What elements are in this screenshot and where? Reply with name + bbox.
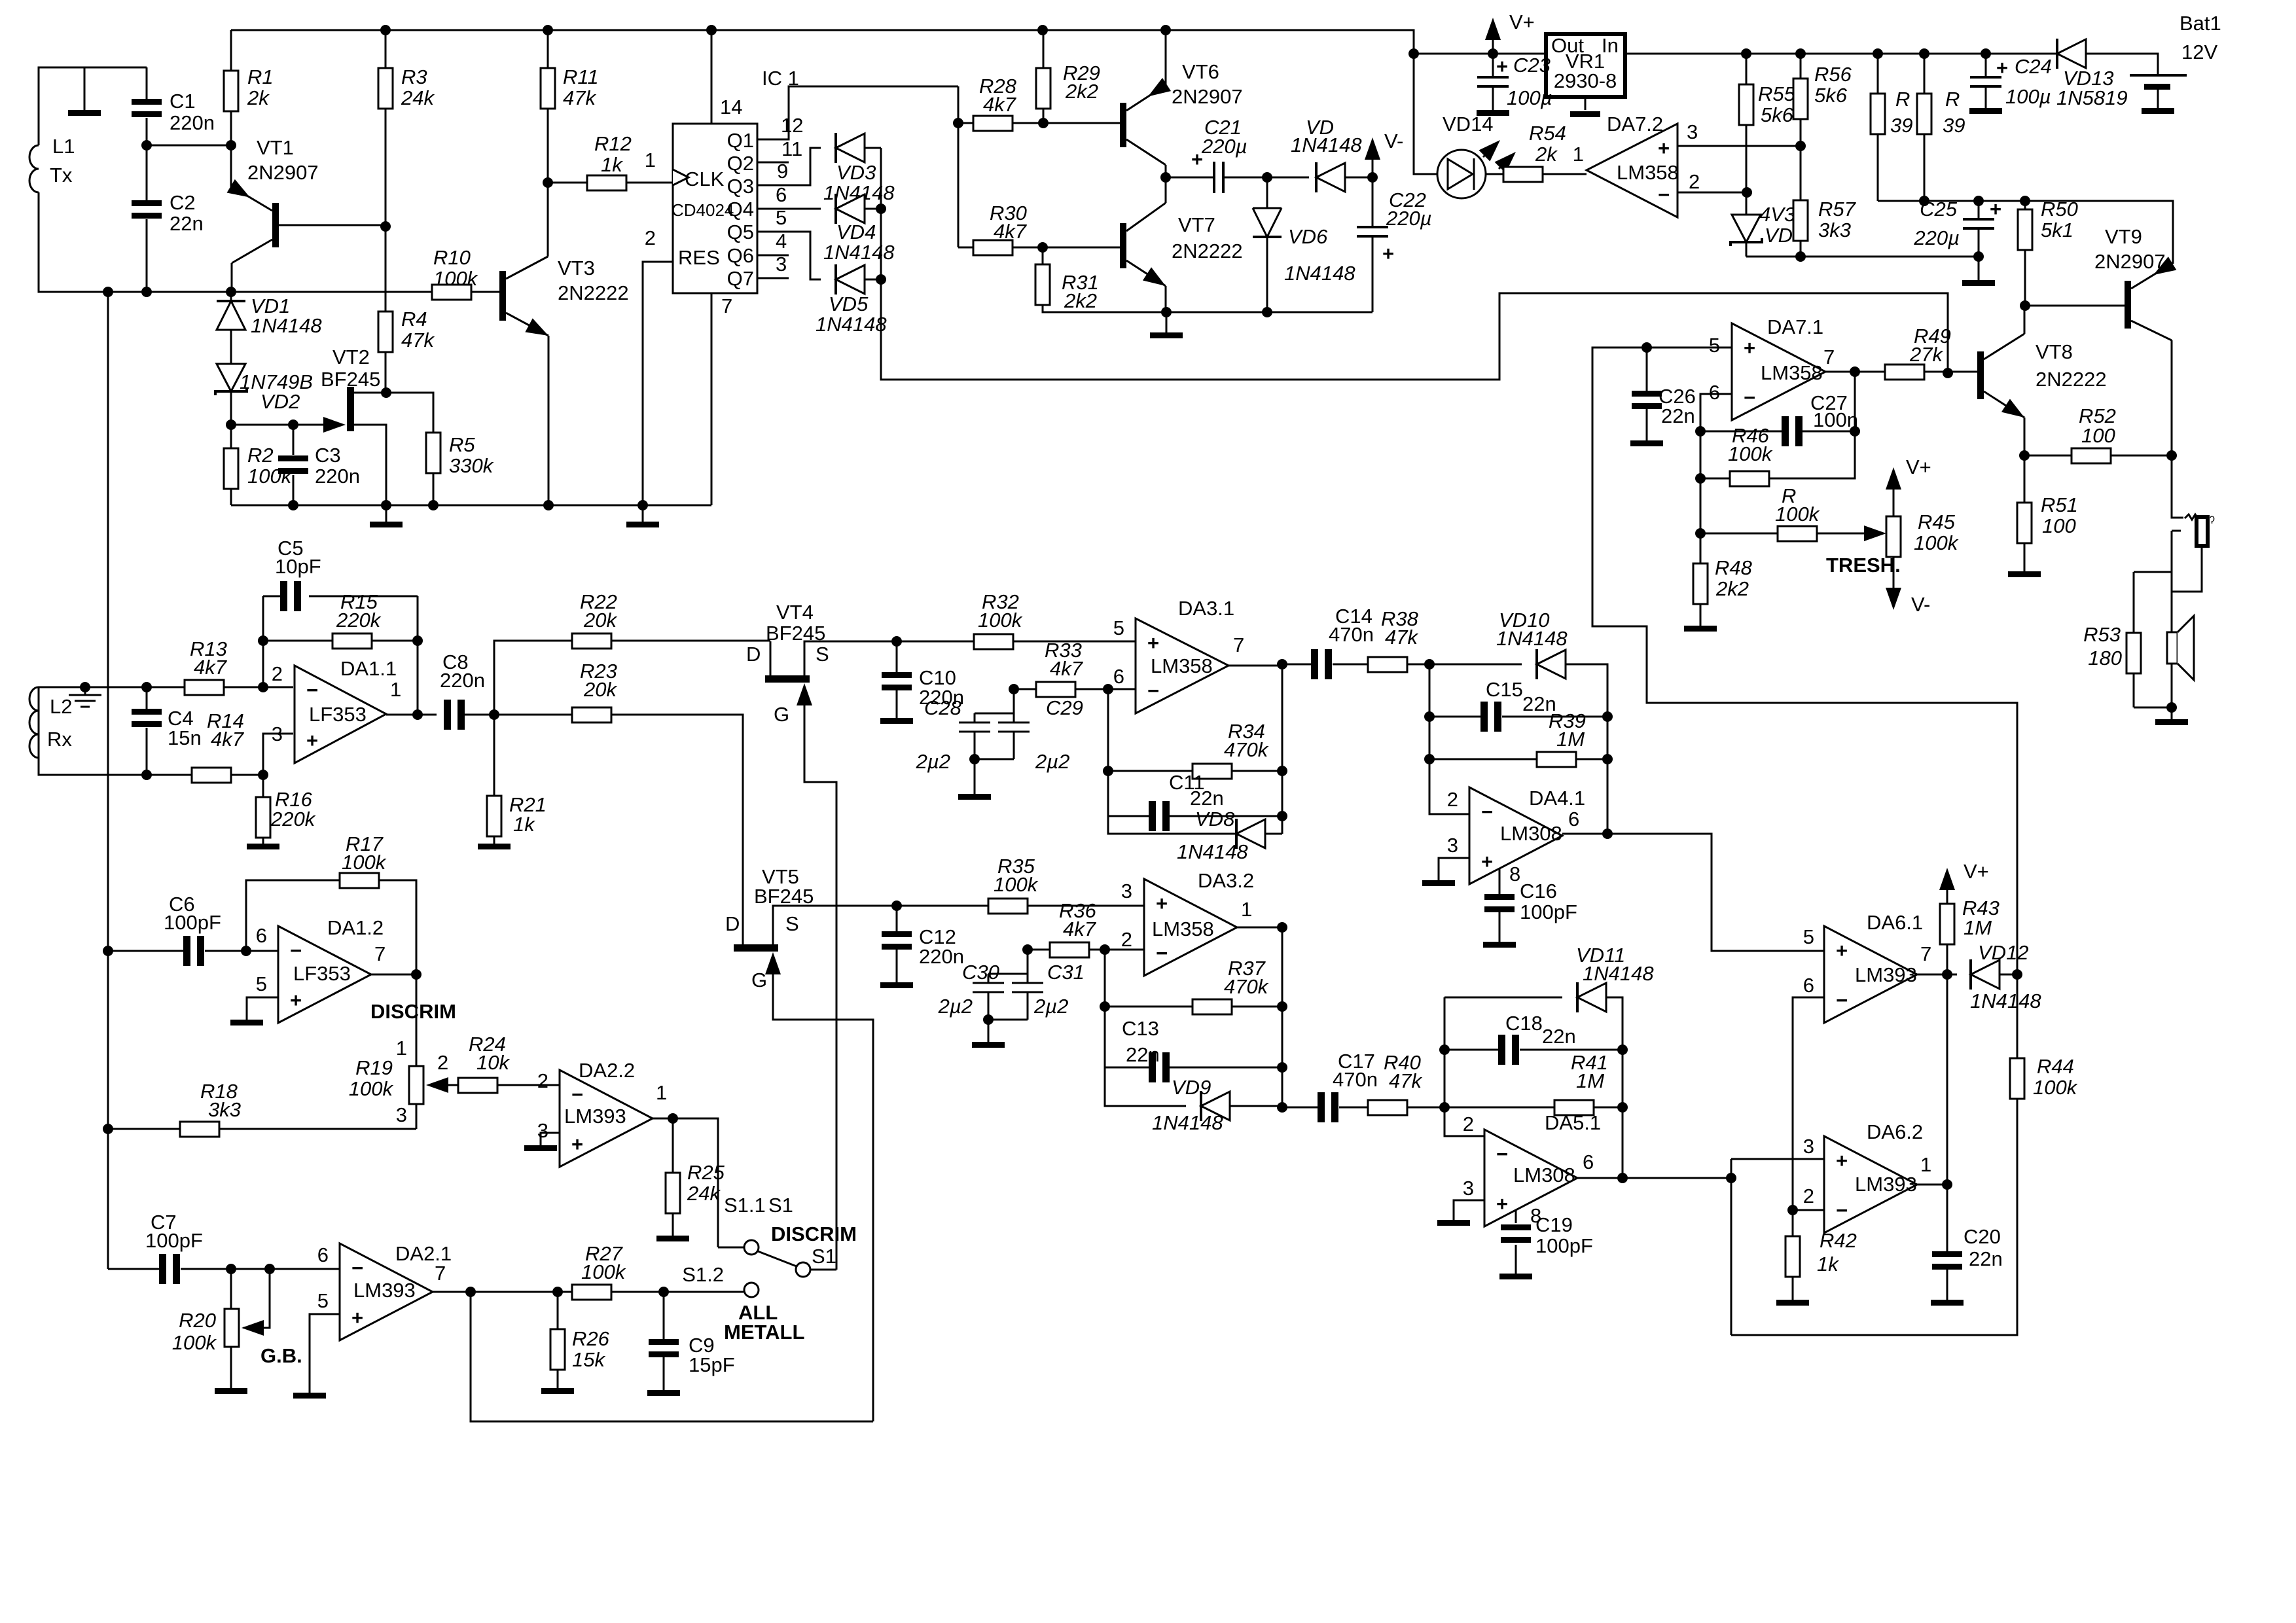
svg-text:G: G (774, 703, 789, 726)
wire DA6.2 pin3 (1731, 1158, 1824, 1160)
wire DA7.1 pin5 long return (1592, 348, 2017, 974)
wire source rail (231, 505, 711, 507)
svg-text:6: 6 (1568, 808, 1579, 830)
capacitors C28 C29 2u2 (975, 689, 1014, 722)
ground at C23 (1477, 110, 1509, 116)
svg-text:3: 3 (396, 1103, 407, 1126)
svg-text:VT3: VT3 (558, 257, 595, 279)
wire pin2 column with feedback taps (262, 596, 264, 687)
resistor R 39 second (1924, 54, 1926, 201)
svg-text:22n: 22n (1661, 404, 1695, 427)
svg-text:DA6.1: DA6.1 (1867, 911, 1923, 934)
svg-text:4k7: 4k7 (983, 93, 1017, 116)
svg-text:S1: S1 (812, 1245, 836, 1268)
svg-text:−: − (1658, 183, 1670, 206)
svg-text:METALL: METALL (724, 1321, 804, 1344)
transistor VT4 BF245 JFET (765, 675, 810, 683)
ground at VT2 source (386, 505, 387, 522)
wire VT7 emitter ground stub (1166, 312, 1168, 332)
svg-text:V+: V+ (1906, 455, 1931, 478)
svg-text:Q7: Q7 (727, 267, 754, 290)
svg-text:6: 6 (317, 1243, 329, 1266)
ground at R26 (541, 1388, 574, 1394)
potentiometer R45 100k (1864, 526, 1886, 541)
svg-text:C30: C30 (962, 961, 999, 984)
transistor VT8 2N2222 (1977, 351, 1984, 399)
resistor R53 (2134, 572, 2172, 707)
op-amp DA2.1 LM393 (340, 1243, 433, 1340)
potentiometer R19 100k (409, 1066, 423, 1104)
svg-text:8: 8 (1509, 863, 1520, 885)
wire DA7.1 output row (1825, 371, 1885, 373)
svg-text:100pF: 100pF (1520, 901, 1577, 923)
ground at C25 (1978, 257, 1980, 280)
wire Q6 pin4 (757, 255, 789, 257)
ground at R51 (2008, 571, 2041, 577)
svg-text:Q5: Q5 (727, 221, 754, 243)
resistor R41 1M (1444, 1107, 1623, 1109)
wire output to R19 (416, 974, 418, 1066)
switch S1.2 (664, 1291, 744, 1293)
svg-text:3: 3 (537, 1119, 548, 1142)
V+ arrow top (1492, 31, 1494, 54)
wire C6 to pin6 and R17 (246, 880, 340, 951)
wire DA2.1 output (433, 1291, 572, 1293)
op-amp DA1.1 LF353 (295, 666, 386, 763)
svg-text:DA1.2: DA1.2 (327, 916, 384, 939)
svg-text:S1.1: S1.1 (724, 1194, 766, 1217)
resistor R21 (493, 715, 495, 796)
svg-text:Q4: Q4 (727, 198, 754, 221)
capacitor C3 (293, 425, 295, 505)
resistor R52 (2024, 455, 2172, 457)
wire VT9 collector to R52 (2171, 340, 2173, 455)
svg-text:DA5.1: DA5.1 (1545, 1111, 1601, 1134)
svg-text:1N4148: 1N4148 (1291, 134, 1362, 156)
svg-text:22n: 22n (1126, 1043, 1160, 1066)
svg-text:2µ2: 2µ2 (938, 995, 973, 1018)
ground at C24 (1969, 108, 2002, 114)
svg-text:C1: C1 (170, 90, 196, 113)
resistor R49 (1885, 365, 1924, 380)
diode VD4 1N4148 (836, 194, 865, 224)
svg-text:C20: C20 (1964, 1225, 2001, 1248)
resistor R2 (230, 425, 232, 505)
svg-text:DA1.1: DA1.1 (340, 657, 397, 680)
svg-text:1: 1 (1573, 143, 1584, 166)
svg-text:DA3.2: DA3.2 (1198, 869, 1254, 892)
svg-text:LM358: LM358 (1761, 361, 1823, 384)
wire L1 tank top (39, 67, 147, 145)
wire VD6 C22 bottom rail (1166, 312, 1372, 313)
wire R33 to pin6 (1108, 688, 1136, 690)
svg-text:R25: R25 (687, 1161, 725, 1184)
wire feedback right column (417, 596, 419, 715)
svg-text:C24: C24 (2015, 55, 2052, 78)
svg-text:+: + (1836, 1149, 1848, 1172)
svg-text:VT9: VT9 (2105, 225, 2142, 248)
svg-text:−: − (1496, 1143, 1508, 1166)
wire DA2.2 pin3 ground (541, 1133, 560, 1145)
svg-text:7: 7 (435, 1262, 446, 1285)
op-amp DA7.2 LM358 (1587, 124, 1677, 217)
svg-text:47k: 47k (1389, 1069, 1422, 1092)
resistor R3 (385, 30, 387, 226)
wire DA6.1 output (1917, 974, 1957, 976)
wire DA5.1 output (1577, 1159, 1731, 1335)
capacitor C2 (146, 145, 148, 292)
svg-text:100pF: 100pF (1535, 1234, 1593, 1257)
wire zener bottom rail (1746, 256, 1979, 258)
svg-text:+: + (1156, 892, 1168, 915)
capacitor C12 220n (896, 906, 898, 982)
svg-text:2N2222: 2N2222 (558, 281, 629, 304)
svg-text:BF245: BF245 (754, 885, 814, 908)
svg-text:15k: 15k (572, 1348, 605, 1371)
wire gate node row (231, 424, 338, 426)
switch S1.1 common (718, 1247, 744, 1249)
capacitor C1 (146, 67, 148, 145)
svg-text:VT7: VT7 (1178, 213, 1215, 236)
svg-text:4k7: 4k7 (194, 656, 228, 679)
svg-text:1k: 1k (513, 813, 535, 836)
capacitor C9 15pF (663, 1292, 665, 1390)
svg-text:BF245: BF245 (321, 368, 380, 391)
svg-text:20k: 20k (583, 609, 617, 632)
svg-text:5k6: 5k6 (1761, 103, 1794, 126)
wire DA7.2 pin3 (1677, 145, 1801, 147)
resistor R16 (262, 775, 264, 797)
wire mid supply rail y307 (1878, 201, 2173, 264)
svg-text:DA3.1: DA3.1 (1178, 597, 1234, 620)
svg-text:−: − (290, 939, 302, 962)
ground at C12 (880, 982, 913, 988)
svg-text:VT8: VT8 (2036, 340, 2073, 363)
svg-text:1N4148: 1N4148 (1177, 840, 1248, 863)
svg-text:3: 3 (1803, 1135, 1814, 1158)
resistor R30 (958, 247, 1043, 249)
svg-text:C3: C3 (315, 444, 341, 467)
resistor R42 (1792, 1210, 1794, 1236)
svg-text:3: 3 (1121, 880, 1132, 902)
transistor VT7 2N2222 (1120, 223, 1126, 268)
svg-text:L1: L1 (52, 135, 75, 158)
svg-text:C29: C29 (1046, 696, 1083, 719)
svg-text:100pF: 100pF (164, 911, 221, 934)
svg-text:2N2907: 2N2907 (1172, 85, 1243, 108)
ground at IC1 reset (642, 505, 644, 522)
svg-text:Q6: Q6 (727, 244, 754, 267)
svg-text:4V3: 4V3 (1759, 203, 1795, 226)
resistor R26 (557, 1292, 559, 1388)
resistor R33 (1014, 688, 1108, 690)
svg-text:2k: 2k (1535, 143, 1558, 166)
capacitor C18 22n (1444, 1049, 1498, 1051)
wire DA4.1 output to DA6.1 (1562, 834, 1824, 951)
svg-text:R42: R42 (1820, 1229, 1857, 1252)
svg-text:220n: 220n (919, 945, 964, 968)
svg-text:2: 2 (1463, 1113, 1474, 1135)
svg-text:7: 7 (1920, 942, 1931, 965)
resistor R31 (1042, 247, 1044, 264)
svg-text:2k2: 2k2 (1064, 289, 1097, 312)
svg-text:R19: R19 (355, 1056, 393, 1079)
inductor L1 Tx coil (29, 145, 39, 192)
capacitor C6 100pF (108, 950, 183, 952)
svg-text:2: 2 (1447, 788, 1458, 811)
capacitor C15 22n (1429, 716, 1480, 718)
svg-text:1: 1 (1241, 898, 1252, 921)
wire DA7.1 pin6 node column (1700, 394, 1732, 563)
ground at C9 (647, 1390, 680, 1396)
wire Q5 pin5 (757, 232, 821, 279)
wire DA6.2 pin2 (1793, 1209, 1824, 1211)
wire VT4 gate route (804, 705, 836, 1270)
resistor R22 (572, 633, 611, 649)
resistor R50 (2024, 201, 2026, 306)
resistor R56 (1800, 54, 1802, 201)
svg-text:C19: C19 (1535, 1213, 1573, 1236)
svg-text:100: 100 (2042, 514, 2076, 537)
svg-text:Q3: Q3 (727, 175, 754, 198)
ground at VR1 (1585, 97, 1587, 110)
svg-text:220n: 220n (170, 111, 215, 134)
phone jack (2172, 455, 2183, 518)
svg-text:100pF: 100pF (145, 1229, 203, 1252)
svg-text:LM393: LM393 (1855, 963, 1917, 986)
ground at C19 (1499, 1274, 1532, 1279)
svg-text:LM358: LM358 (1151, 654, 1213, 677)
svg-text:11: 11 (781, 137, 802, 160)
transistor VT9 2N2907 (2125, 281, 2131, 329)
diode VD12 1N4148 (1971, 959, 2000, 990)
svg-text:100k: 100k (2033, 1076, 2078, 1099)
wire R22 step (494, 641, 572, 715)
svg-text:22n: 22n (1969, 1247, 2003, 1270)
svg-text:+: + (1658, 137, 1670, 160)
diode VD9 1N4148 (1105, 1067, 1186, 1106)
resistor R13 (185, 680, 224, 695)
svg-text:V+: V+ (1509, 10, 1535, 33)
ground at R48 (1684, 626, 1717, 632)
svg-text:+: + (1496, 55, 1508, 78)
ground at C30 C31 (972, 1042, 1005, 1048)
capacitor C24 100u (1985, 54, 1987, 108)
svg-text:2: 2 (1121, 928, 1132, 951)
svg-text:2N2222: 2N2222 (2036, 368, 2107, 391)
svg-text:R4: R4 (401, 308, 427, 330)
svg-text:R48: R48 (1715, 556, 1753, 579)
svg-text:LM358: LM358 (1617, 161, 1679, 184)
diode VD10 1N4148 (1429, 664, 1522, 666)
svg-text:6: 6 (1113, 665, 1124, 688)
resistor R29 (1043, 30, 1045, 123)
svg-text:S: S (816, 643, 829, 666)
wire DA4.1 pin3 ground (1439, 858, 1469, 880)
resistor R35 (897, 905, 1144, 907)
svg-text:3: 3 (1463, 1177, 1474, 1200)
svg-text:10pF: 10pF (275, 555, 321, 578)
svg-text:24k: 24k (401, 86, 435, 109)
capacitor C21 220u (1214, 162, 1223, 193)
svg-text:LF353: LF353 (309, 703, 367, 726)
svg-text:7: 7 (1233, 633, 1244, 656)
svg-text:6: 6 (1803, 974, 1814, 997)
ground at C16 (1483, 942, 1516, 948)
capacitor C22 220u (1372, 177, 1374, 312)
svg-text:LF353: LF353 (293, 962, 351, 985)
svg-text:VT2: VT2 (332, 346, 370, 368)
svg-text:R: R (1945, 88, 1960, 111)
svg-text:−: − (1744, 386, 1755, 409)
svg-text:1N4148: 1N4148 (1970, 990, 2041, 1012)
transistor VT6 2N2907 (1120, 103, 1126, 147)
svg-text:5k1: 5k1 (2041, 219, 2073, 241)
diode VD3 1N4148 (836, 133, 865, 163)
resistor R threshold 100k (1700, 533, 1877, 535)
wire DA3.2 output column (1237, 927, 1282, 1107)
svg-text:5: 5 (1113, 616, 1124, 639)
svg-text:7: 7 (721, 294, 732, 317)
svg-text:100k: 100k (1775, 503, 1820, 526)
svg-text:V-: V- (1384, 130, 1403, 152)
svg-text:R54: R54 (1529, 122, 1566, 145)
svg-text:+: + (306, 729, 318, 752)
diode VD6 1N4148 (1266, 177, 1268, 208)
svg-text:5: 5 (1709, 334, 1720, 357)
svg-text:1M: 1M (1964, 916, 1992, 939)
ground at R16 (247, 844, 279, 849)
resistor R4 (385, 226, 387, 393)
svg-text:+: + (1382, 242, 1394, 265)
ground at R21 (478, 844, 511, 849)
svg-text:100µ: 100µ (2005, 85, 2051, 108)
svg-text:6: 6 (776, 183, 787, 206)
svg-text:20k: 20k (583, 678, 617, 701)
svg-text:R56: R56 (1814, 63, 1852, 86)
transistor VT3 2N2222 (499, 271, 506, 321)
svg-text:2930-8: 2930-8 (1554, 69, 1617, 92)
svg-text:100k: 100k (342, 851, 387, 874)
svg-text:6: 6 (1583, 1150, 1594, 1173)
wire V+ branch and LED branch (1414, 54, 1437, 174)
svg-text:7: 7 (374, 942, 386, 965)
resistor R44 (2010, 1058, 2024, 1099)
svg-text:C25: C25 (1920, 198, 1958, 221)
svg-text:+: + (1996, 56, 2008, 79)
svg-text:220µ: 220µ (1913, 226, 1960, 249)
wire DA5.1 pin3 ground (1454, 1200, 1484, 1220)
zener diode VD2 1N749B (217, 364, 245, 391)
svg-text:LM358: LM358 (1152, 918, 1214, 940)
svg-text:27k: 27k (1909, 343, 1943, 366)
svg-text:Tx: Tx (50, 164, 73, 187)
svg-text:Q2: Q2 (727, 152, 754, 175)
svg-text:180: 180 (2088, 647, 2122, 669)
svg-text:2: 2 (437, 1051, 448, 1074)
svg-text:+: + (1481, 850, 1493, 873)
wire DA1.2 output (371, 974, 416, 976)
svg-text:2µ2: 2µ2 (916, 750, 950, 773)
svg-text:470k: 470k (1224, 975, 1269, 998)
svg-text:2: 2 (537, 1069, 548, 1092)
svg-text:R5: R5 (449, 433, 475, 456)
svg-text:1N4148: 1N4148 (251, 314, 322, 337)
svg-text:1: 1 (656, 1081, 667, 1104)
svg-text:RES: RES (678, 246, 720, 269)
wire L2 top row (39, 687, 185, 688)
svg-text:2N2222: 2N2222 (1172, 240, 1243, 262)
svg-text:−: − (1836, 1199, 1848, 1222)
svg-text:5: 5 (1803, 925, 1814, 948)
svg-text:R57: R57 (1818, 198, 1857, 221)
wire R30 node to VT7 base (1043, 247, 1120, 249)
svg-text:DA7.2: DA7.2 (1607, 113, 1663, 135)
svg-text:+: + (290, 989, 302, 1012)
svg-text:VD8: VD8 (1195, 808, 1235, 830)
wire IC1 pin2 reset (643, 262, 673, 505)
capacitors C30 C31 2u2 (988, 950, 1028, 983)
svg-text:2N2907: 2N2907 (2094, 250, 2166, 273)
capacitor C8 220n (444, 700, 451, 730)
svg-text:C31: C31 (1047, 961, 1085, 984)
svg-text:+: + (1496, 1192, 1508, 1215)
resistor R 39 first (1877, 54, 1879, 201)
svg-text:1N4148: 1N4148 (1152, 1111, 1223, 1134)
wire DA5.1 input column (1444, 997, 1484, 1136)
svg-text:R11: R11 (563, 65, 599, 88)
op-amp DA4.1 LM308 (1469, 787, 1562, 884)
svg-text:330k: 330k (449, 454, 494, 477)
svg-text:100k: 100k (978, 609, 1023, 632)
inductor L2 Rx coil (29, 687, 39, 758)
svg-text:1: 1 (396, 1037, 407, 1060)
wire DA6.2 output column (1917, 974, 1947, 1251)
svg-text:470k: 470k (1224, 738, 1269, 761)
wire Q7 pin3 (757, 277, 789, 279)
svg-text:V-: V- (1911, 593, 1930, 616)
svg-text:−: − (1156, 942, 1168, 965)
capacitor C14 470n (1282, 664, 1311, 666)
ground at C10 (880, 718, 913, 724)
wire DA6.1 pin6 column (1793, 997, 1824, 1210)
svg-text:24k: 24k (687, 1182, 721, 1205)
svg-text:−: − (1147, 679, 1159, 702)
ground at C28 C29 (958, 794, 991, 800)
svg-text:3k3: 3k3 (1818, 219, 1851, 241)
svg-text:VD6: VD6 (1288, 225, 1328, 248)
svg-text:+: + (571, 1133, 583, 1156)
op-amp DA5.1 LM308 (1484, 1130, 1577, 1226)
svg-text:15n: 15n (168, 726, 202, 749)
svg-text:VD9: VD9 (1172, 1076, 1211, 1099)
wire Q1 pin12 (757, 86, 958, 139)
wire VT5 gate route (773, 974, 873, 1421)
capacitor C26 22n (1646, 348, 1648, 440)
resistor R34 (1108, 689, 1282, 771)
wire R31 bottom to emitter rail (1043, 305, 1166, 312)
svg-text:1N4148: 1N4148 (823, 241, 895, 264)
svg-text:G.B.: G.B. (260, 1344, 302, 1367)
capacitor C10 220n (896, 641, 898, 718)
svg-text:39: 39 (1943, 114, 1965, 137)
resistor R23 (572, 707, 611, 722)
wire DA1.1 output (386, 714, 437, 716)
resistor R28 (958, 86, 1043, 247)
op-amp DA6.2 LM393 (1824, 1136, 1917, 1233)
wire VT9 base (2025, 305, 2125, 307)
svg-text:R10: R10 (433, 246, 471, 269)
